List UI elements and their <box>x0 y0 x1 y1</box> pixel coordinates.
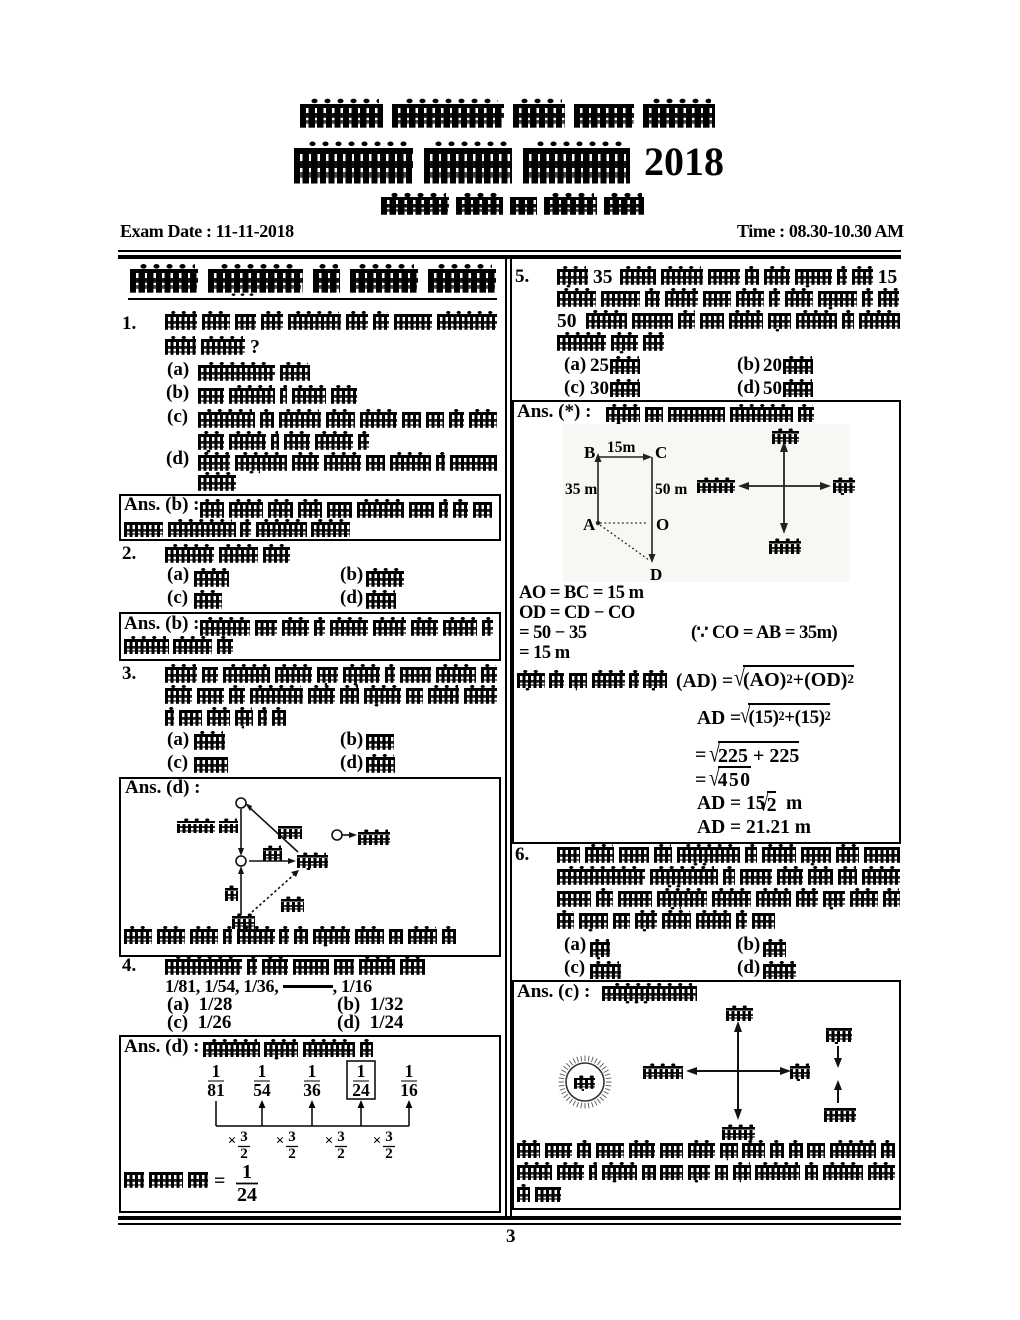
eq: because CO = AB = 35m <box>691 624 837 643</box>
wire: A to O dotted <box>600 522 648 524</box>
q6 compass label pashchim <box>643 1066 683 1086</box>
q6 compass label poorv <box>790 1066 810 1086</box>
Q5 line 4 <box>557 335 664 360</box>
arrowhead at D (downwards) <box>649 554 656 563</box>
exam time right <box>737 222 904 240</box>
label: mahila <box>358 832 390 852</box>
wire: A to D dotted diagonal <box>600 525 649 560</box>
header double rule <box>118 250 901 252</box>
label: meera <box>232 916 255 936</box>
Q3 line 1 <box>165 667 497 692</box>
bottom double rule <box>118 1216 901 1221</box>
Q6 expl line 3 <box>517 1187 561 1210</box>
guna down arrow <box>834 1058 842 1068</box>
label: iklauti beti <box>177 821 238 839</box>
Ans box Q6 <box>512 980 901 1210</box>
Q4 number <box>122 956 136 975</box>
q6 compass label uttar <box>726 1008 753 1028</box>
light scan background of figure strip <box>563 424 850 582</box>
wire: only-daughter vertical arrow top circle to middle circle <box>240 809 242 851</box>
Q1 option c <box>167 407 188 426</box>
Q4 option c/d <box>167 1013 231 1032</box>
label: pati <box>263 848 282 868</box>
Q2 option c/d <box>167 588 188 607</box>
Q4 option a/b <box>167 995 232 1014</box>
wire: legend arrow <box>342 834 353 836</box>
Q5 number <box>515 267 529 286</box>
compass cross <box>692 1027 785 1114</box>
eq: AO = BC = 15 m <box>519 584 644 603</box>
q6 compass label dakshin <box>722 1127 755 1147</box>
Q5 line 3 <box>557 313 900 338</box>
Q6 line 4 <box>557 913 775 938</box>
wire: saas diagonal Kumar to top circle <box>250 808 298 852</box>
wire: mother vertical arrow Meera to middle circle <box>240 871 242 915</box>
Q6 option c/d <box>564 958 585 977</box>
atah gayab pad = 1/24 big fraction <box>237 1161 257 1206</box>
label guna <box>826 1028 852 1049</box>
Ans box Q5 <box>512 400 901 844</box>
wire: C to D right vertical <box>651 457 653 557</box>
wire: pati horizontal arrow to Kumar <box>249 860 291 862</box>
compass label uttar <box>772 431 799 451</box>
label: pita <box>281 899 304 919</box>
Q5 line 2 <box>557 291 900 316</box>
eq: = 15 m <box>519 644 570 663</box>
sun label surya <box>574 1078 595 1094</box>
label bala <box>824 1108 856 1129</box>
Q3 line 3 <box>165 710 286 735</box>
eq: = sqrt(450) <box>695 770 706 790</box>
label: kumar <box>297 855 328 875</box>
Q3 line 2 <box>165 688 497 713</box>
page number 3 <box>506 1227 516 1246</box>
compass cross (Q5) <box>744 447 825 528</box>
Q6 number <box>515 845 529 864</box>
Q1 option a <box>167 360 189 379</box>
dot at A <box>596 521 600 525</box>
Q5 option c/d <box>564 378 585 397</box>
Q5 option a/b <box>564 355 586 374</box>
column divider double line <box>505 259 507 1216</box>
Q2 option a/b <box>167 565 189 584</box>
Ans box Q3 with relation diagram <box>119 777 501 957</box>
Q3 answer bottom line <box>124 929 456 952</box>
Q6 line 3 <box>557 891 900 916</box>
sun circle with rays <box>566 1063 604 1101</box>
arrowhead at C (rightwards) <box>643 454 652 461</box>
x3/2 multipliers <box>228 1129 393 1162</box>
Q4 line <box>165 959 425 984</box>
wire: B to C top segment <box>598 456 646 458</box>
node: mother-in-law circle (top) <box>236 798 246 808</box>
box around 1/24 <box>347 1061 375 1099</box>
Ans box Q1 <box>119 494 501 541</box>
Q6 option a/b <box>564 935 586 954</box>
legend circle (woman) <box>332 830 342 840</box>
wire: A to B left vertical <box>597 457 599 524</box>
Q1 line 1 <box>165 314 497 339</box>
Q3 option a/b <box>167 730 189 749</box>
Q1 number <box>122 314 136 333</box>
Q1 option b <box>166 383 189 402</box>
eq: = 50 - 35 <box>519 624 586 643</box>
Q2 line <box>165 547 290 572</box>
Q4 series <box>165 977 372 995</box>
Q1 line 2 <box>165 339 263 364</box>
eq: OD = CD - CO <box>519 604 635 623</box>
eq: = sqrt(225+225) <box>695 745 706 765</box>
compass label poorv <box>833 480 855 500</box>
label: maa <box>225 888 238 908</box>
connector: baseline with ticks and up arrows <box>216 1101 409 1126</box>
compass label pashchim <box>697 480 735 500</box>
exam date left <box>120 222 294 240</box>
compass label dakshin <box>769 541 801 561</box>
eq: AD = sqrt((15)2+(15)2) <box>697 709 741 729</box>
atah gayab pad = <box>124 1172 208 1197</box>
header line 1: Delhi Subordinate Services Selection Board (Hindi) <box>300 104 715 141</box>
Q6 expl line 2 <box>517 1165 895 1188</box>
Q5 line 1 (mixed latin digits) <box>557 269 900 294</box>
header line 2: Primary Teacher Exam, 2018 (Hindi + year) <box>294 148 630 202</box>
bala up arrow <box>834 1080 842 1090</box>
Q3 option c/d <box>167 753 188 772</box>
label: saas <box>278 826 302 846</box>
Q1 option d <box>166 449 189 468</box>
Ans box Q2 <box>119 612 501 661</box>
wire: pita dashed diagonal Meera to Kumar <box>252 872 297 912</box>
eq line: mukesh ki mool sthan se doori (AD) = sqrt((AO)2+(OD)2) <box>517 673 667 696</box>
node: wife circle (middle) <box>236 856 246 866</box>
section heading: General Intelligence and Reasoning Ability <box>130 269 496 305</box>
Q6 expl line 1 <box>517 1143 895 1166</box>
header line 3: solved question paper with explanation (Hindi) <box>381 197 644 224</box>
eq: AD = 21.21 m <box>697 818 811 838</box>
Q2 number <box>122 544 136 563</box>
arrowhead at B (upwards) <box>595 453 602 462</box>
Q3 number <box>122 664 136 683</box>
Q6 line 1 <box>557 847 900 872</box>
Q6 line 2 <box>557 869 900 894</box>
Ans box Q4 with fraction series diagram <box>119 1035 501 1213</box>
eq: AD = 15 sqrt2 m <box>697 794 766 814</box>
